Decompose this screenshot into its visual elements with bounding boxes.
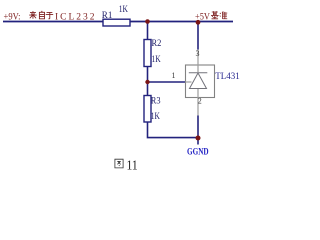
svg-text:R2: R2 [152, 38, 162, 48]
wire: divider tap to TL431 pin 1 [148, 81, 187, 83]
svg-text:3: 3 [196, 49, 200, 58]
svg-text:+9V:: +9V: [4, 12, 21, 22]
junction dot at +5V node [196, 20, 201, 25]
resistor R2 body [144, 40, 151, 67]
svg-text:1K: 1K [151, 111, 161, 121]
svg-text:TL431: TL431 [215, 72, 240, 82]
svg-text:1: 1 [172, 71, 176, 80]
wire: below R3 to bottom rail corner [148, 122, 199, 138]
wire: TL431 pin 2 down to ground junction and stub [197, 116, 199, 145]
TL431 zener triangle [190, 73, 207, 89]
wire: vertical from top rail down to R2 [147, 22, 149, 40]
CJK glyph YU of 来自于 [46, 12, 53, 18]
CJK glyph ZHUN of 基准 [220, 11, 227, 19]
junction dot at divider tap [145, 80, 149, 84]
junction dot at ground node [196, 136, 201, 141]
TL431 pin 1 stub inside box [186, 81, 192, 83]
svg-text:11: 11 [127, 159, 138, 174]
CJK glyph LAI of 来自于 [29, 11, 36, 19]
svg-text:1K: 1K [152, 54, 162, 64]
svg-text:ICL232: ICL232 [55, 12, 97, 22]
resistor R3 body [144, 96, 151, 123]
resistor R1 body [103, 19, 130, 26]
CJK glyph ZI of 来自于 [39, 11, 44, 19]
junction dot at R2 top tap [145, 19, 150, 24]
wire: +9V rail top horizontal [3, 21, 233, 23]
svg-text:R3: R3 [151, 96, 161, 106]
wire: vertical from +5V junction down to TL431 pin 3 [197, 22, 199, 50]
TL431 cathode bar [189, 72, 208, 74]
CJK glyph TU of 图 caption [115, 159, 123, 168]
svg-text:GGND: GGND [187, 147, 209, 157]
svg-text:R1: R1 [102, 10, 113, 20]
TL431 pin 2 stub (gray) [197, 89, 199, 116]
svg-text:+5V: +5V [195, 12, 210, 22]
svg-text:2: 2 [198, 96, 202, 105]
CJK glyph JI of 基准 [211, 11, 219, 19]
wire: R2 bottom to R3 top [147, 67, 149, 96]
TL431 pin 3 stub (gray) [197, 50, 199, 73]
svg-text:1K: 1K [119, 4, 129, 14]
op-amp U1: TL431 body box [186, 65, 215, 98]
